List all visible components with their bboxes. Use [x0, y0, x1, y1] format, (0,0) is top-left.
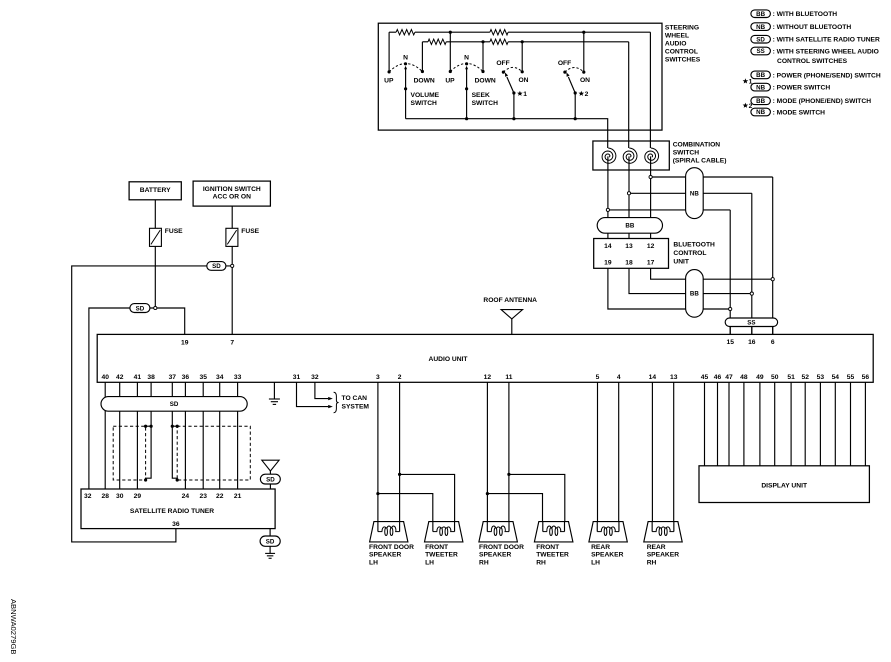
junction tweeter LH minus — [376, 492, 379, 495]
junction row1 switch2 ON — [582, 31, 585, 34]
node circle battery wire — [154, 306, 157, 309]
svg-text:FUSE: FUSE — [165, 228, 183, 235]
connector SD tuner antenna — [260, 474, 280, 484]
wire bottom bus of switch box — [406, 117, 608, 148]
svg-text:42: 42 — [116, 374, 124, 381]
wire audio pin 13 to rear speaker RH — [673, 382, 675, 521]
ignition switch box — [193, 181, 270, 206]
wire audio pin 31 to CAN — [297, 382, 329, 406]
svg-text:SATELLITE RADIO TUNER: SATELLITE RADIO TUNER — [130, 508, 214, 515]
svg-text:AUDIO: AUDIO — [665, 40, 687, 47]
wire bluetooth pin 19 to node on pin15 line — [608, 268, 730, 309]
wire row2 down to combination switch — [628, 42, 630, 148]
svg-text:UNIT: UNIT — [673, 258, 690, 265]
wire SD to ground — [269, 546, 271, 553]
svg-text:AUDIO UNIT: AUDIO UNIT — [428, 356, 468, 363]
svg-text:CONTROL: CONTROL — [665, 48, 698, 55]
svg-text:: MODE (PHONE/END) SWITCH: : MODE (PHONE/END) SWITCH — [773, 98, 872, 105]
svg-text:FRONT: FRONT — [536, 544, 560, 551]
connector SD main harness — [101, 397, 247, 412]
rear speaker RH — [644, 522, 682, 567]
svg-text:SYSTEM: SYSTEM — [342, 403, 370, 410]
audio unit bottom pin labels — [101, 374, 869, 381]
svg-text:FRONT: FRONT — [425, 544, 449, 551]
mode switch *2 — [558, 60, 590, 119]
front door speaker RH — [479, 522, 524, 567]
svg-text:36: 36 — [172, 521, 180, 528]
svg-text:2: 2 — [398, 374, 402, 381]
svg-text:47: 47 — [725, 374, 733, 381]
svg-text:N: N — [403, 54, 408, 61]
svg-text:14: 14 — [649, 374, 657, 381]
node circle right spiral — [649, 175, 652, 178]
wire antenna SD to tuner — [269, 484, 271, 489]
connector BB upper (with bluetooth) — [597, 218, 662, 234]
svg-text:53: 53 — [817, 374, 825, 381]
wire row2 resistor rail — [422, 41, 628, 43]
svg-text:RH: RH — [479, 560, 489, 567]
junction row2 switch1 ON — [521, 40, 524, 43]
legend star 2 — [743, 103, 753, 110]
svg-text:38: 38 — [147, 374, 155, 381]
svg-text:SWITCH: SWITCH — [411, 100, 438, 107]
svg-text:CONTROL SWITCHES: CONTROL SWITCHES — [777, 58, 848, 65]
svg-text:RH: RH — [536, 560, 546, 567]
svg-text:UP: UP — [384, 78, 394, 85]
rear speaker LH — [589, 522, 627, 567]
svg-text:51: 51 — [787, 374, 795, 381]
svg-text:: WITH SATELLITE RADIO TUNER: : WITH SATELLITE RADIO TUNER — [773, 37, 880, 44]
svg-text:UP: UP — [445, 78, 455, 85]
front tweeter RH — [534, 522, 573, 567]
wire audio pin 5 to rear speaker LH — [597, 382, 599, 521]
svg-text:SD: SD — [756, 36, 765, 43]
spiral cable coil middle — [623, 148, 637, 163]
svg-text:22: 22 — [216, 493, 224, 500]
svg-text:SD: SD — [266, 476, 275, 483]
svg-text:16: 16 — [748, 339, 756, 346]
display unit box — [699, 466, 869, 503]
svg-text:35: 35 — [199, 374, 207, 381]
svg-text:LH: LH — [591, 560, 600, 567]
wire audio pin 2 to front door speaker LH — [399, 382, 401, 521]
svg-text:ON: ON — [518, 77, 528, 84]
svg-text:11: 11 — [505, 374, 512, 381]
wire audio pin 15 vertical — [729, 210, 731, 335]
wire ignition fuse to audio pin 7 — [231, 246, 233, 334]
steering wheel audio control switches box — [378, 23, 662, 130]
shield box right pair — [177, 426, 250, 480]
wire SD branch to tuner pin 36 loop — [72, 266, 233, 542]
svg-text:6: 6 — [771, 339, 775, 346]
wire tuner case ground — [269, 529, 271, 536]
svg-text:: WITHOUT BLUETOOTH: : WITHOUT BLUETOOTH — [773, 24, 852, 31]
label BLUETOOTH CONTROL UNIT — [673, 242, 715, 266]
wire audio pin 11 to front door speaker RH — [508, 382, 510, 521]
svg-text:4: 4 — [617, 374, 621, 381]
node circle pin15 line — [729, 307, 732, 310]
svg-text:56: 56 — [862, 374, 870, 381]
wire battery SD branch to tuner pin 32 — [89, 308, 155, 489]
svg-text:33: 33 — [234, 374, 242, 381]
svg-text:55: 55 — [847, 374, 855, 381]
svg-text:BLUETOOTH: BLUETOOTH — [673, 242, 715, 249]
svg-text:48: 48 — [740, 374, 748, 381]
svg-text:SD: SD — [212, 263, 221, 270]
connector SS (with steering wheel audio control switches) — [725, 318, 777, 327]
resistor R1 volume — [396, 30, 415, 35]
svg-text:FUSE: FUSE — [241, 228, 259, 235]
ground audio unit — [269, 382, 280, 404]
wire tap to front tweeter LH plus — [400, 474, 455, 521]
svg-text:NB: NB — [756, 84, 765, 91]
satellite radio tuner box — [81, 489, 275, 529]
resistor R3 mode — [490, 30, 508, 35]
svg-text:SD: SD — [170, 401, 179, 408]
wire audio pin 12 to front door speaker RH — [486, 382, 488, 521]
svg-text:32: 32 — [311, 374, 319, 381]
wire audio pin 4 to rear speaker LH — [618, 382, 620, 521]
svg-text:: MODE SWITCH: : MODE SWITCH — [773, 109, 826, 116]
wire node left spiral to NB branch — [608, 209, 730, 211]
brace TO CAN SYSTEM — [334, 392, 339, 413]
svg-text:SWITCH: SWITCH — [673, 150, 700, 157]
wire tap to front tweeter RH minus — [487, 494, 542, 522]
svg-text:SPEAKER: SPEAKER — [479, 552, 512, 559]
wire switch1 ON to row2 — [521, 42, 523, 72]
svg-text:COMBINATION: COMBINATION — [673, 142, 721, 149]
wire battery to fuse — [154, 200, 156, 229]
svg-text:29: 29 — [134, 493, 142, 500]
tuner pin labels — [84, 493, 242, 528]
svg-text:50: 50 — [771, 374, 779, 381]
svg-text:FRONT DOOR: FRONT DOOR — [479, 544, 524, 551]
wire audio pin 16 vertical — [751, 193, 753, 334]
seek switch — [445, 54, 498, 118]
junction tweeter LH plus — [398, 473, 401, 476]
wire audio pin 6 vertical — [772, 177, 774, 334]
combination switch (spiral cable) box — [593, 141, 669, 170]
wire seek DOWN to row2 — [482, 42, 484, 72]
wire ignition to fuse — [231, 206, 233, 228]
wire pin6 through SS — [772, 318, 774, 334]
svg-text:OFF: OFF — [558, 60, 571, 67]
wire tap to front tweeter LH minus — [378, 494, 433, 522]
svg-text:45: 45 — [701, 374, 709, 381]
svg-text:TO CAN: TO CAN — [342, 395, 368, 402]
spiral cable coil left — [602, 148, 616, 163]
svg-text:18: 18 — [625, 259, 633, 266]
wire audio pin 37 shield drain — [172, 382, 177, 480]
wire node middle spiral to NB branch — [629, 192, 752, 194]
svg-text:36: 36 — [182, 374, 190, 381]
svg-text:SEEK: SEEK — [472, 92, 490, 99]
svg-text:DOWN: DOWN — [414, 78, 435, 85]
svg-text:REAR: REAR — [591, 544, 610, 551]
svg-text:5: 5 — [596, 374, 600, 381]
wire pin15 through SS — [729, 318, 731, 334]
svg-text:12: 12 — [484, 374, 492, 381]
junction tweeter RH plus — [507, 473, 510, 476]
svg-text:SS: SS — [747, 319, 755, 326]
svg-text:46: 46 — [714, 374, 722, 381]
wire left spiral down to bluetooth unit pin 14 — [607, 156, 609, 238]
svg-text:49: 49 — [756, 374, 764, 381]
svg-text:BATTERY: BATTERY — [140, 187, 171, 194]
wires audio pins 40-33 to satellite tuner — [105, 382, 237, 489]
svg-text:SWITCHES: SWITCHES — [665, 56, 701, 63]
node circle ignition wire — [231, 264, 234, 267]
svg-text:SPEAKER: SPEAKER — [591, 552, 624, 559]
svg-text:TWEETER: TWEETER — [425, 552, 458, 559]
svg-text:3: 3 — [376, 374, 380, 381]
svg-text:SWITCH: SWITCH — [472, 100, 499, 107]
svg-text:13: 13 — [670, 374, 678, 381]
svg-text:IGNITION SWITCH: IGNITION SWITCH — [203, 186, 261, 193]
fuse F2 ignition — [226, 228, 238, 246]
svg-text:NB: NB — [756, 109, 765, 116]
svg-text:: POWER SWITCH: : POWER SWITCH — [773, 85, 831, 92]
svg-text:STEERING: STEERING — [665, 24, 699, 31]
connector SD tuner ground — [260, 536, 280, 546]
roof antenna — [483, 297, 537, 335]
node circle pin6 line — [771, 278, 774, 281]
wire tap to front tweeter RH plus — [509, 474, 565, 521]
svg-text:LH: LH — [369, 560, 378, 567]
wire audio pin 32 to CAN — [315, 382, 328, 398]
svg-text:SPEAKER: SPEAKER — [369, 552, 402, 559]
svg-text:ABNWA0279GB: ABNWA0279GB — [9, 599, 18, 654]
ground tuner — [265, 552, 275, 554]
svg-text:: POWER (PHONE/SEND) SWITCH: : POWER (PHONE/SEND) SWITCH — [773, 72, 881, 79]
junction row2 seek DOWN — [481, 40, 484, 43]
wire battery SD node to audio pin 19 — [155, 308, 184, 334]
svg-text:37: 37 — [169, 374, 177, 381]
svg-text:14: 14 — [604, 243, 612, 250]
legend star 1 — [743, 78, 753, 85]
wire audio pin 14 to rear speaker RH — [651, 382, 653, 521]
wire switch2 ON to row1 — [583, 32, 585, 71]
audio unit box — [97, 334, 873, 382]
svg-text:54: 54 — [832, 374, 840, 381]
label STEERING WHEEL AUDIO CONTROL SWITCHES — [665, 24, 701, 63]
svg-text:NB: NB — [690, 190, 699, 197]
wire volume DOWN to row2 — [421, 42, 423, 72]
shield junctions — [144, 425, 179, 482]
shield box left pair — [113, 426, 145, 480]
wire middle spiral down to bluetooth unit pin 13 — [628, 156, 630, 238]
svg-text:BB: BB — [625, 223, 634, 230]
svg-text:41: 41 — [134, 374, 142, 381]
wire pin16 through SS — [751, 318, 753, 334]
power switch *1 — [496, 60, 528, 119]
svg-text:2: 2 — [749, 103, 753, 110]
svg-text:RH: RH — [647, 560, 657, 567]
wire node right spiral to NB branch — [651, 176, 773, 178]
svg-text:31: 31 — [293, 374, 301, 381]
bluetooth control unit box — [594, 239, 669, 269]
svg-text:SD: SD — [266, 538, 275, 545]
svg-text:28: 28 — [101, 493, 109, 500]
svg-text:NB: NB — [756, 24, 765, 31]
svg-text:21: 21 — [234, 493, 242, 500]
svg-text:BB: BB — [756, 98, 765, 105]
battery box — [129, 182, 181, 200]
connector SD on battery branch — [130, 304, 150, 313]
svg-text:ROOF ANTENNA: ROOF ANTENNA — [483, 297, 537, 304]
wire volume UP to row1 — [388, 32, 390, 72]
svg-text:32: 32 — [84, 493, 92, 500]
svg-text:2: 2 — [585, 91, 589, 98]
svg-text:24: 24 — [182, 493, 190, 500]
node circle middle spiral — [627, 192, 630, 195]
wire bluetooth pin 18 to node on pin16 line — [629, 268, 752, 293]
svg-text:13: 13 — [625, 243, 633, 250]
svg-text:BB: BB — [756, 72, 765, 79]
svg-text:TWEETER: TWEETER — [536, 552, 569, 559]
node circle left spiral — [606, 208, 609, 211]
svg-text:19: 19 — [181, 340, 189, 347]
svg-text:40: 40 — [101, 374, 109, 381]
legend connector codes — [751, 10, 881, 117]
svg-text:: WITH BLUETOOTH: : WITH BLUETOOTH — [773, 11, 838, 18]
svg-text:17: 17 — [647, 259, 655, 266]
wires audio pins 45-56 to display unit — [705, 382, 866, 466]
svg-text:CONTROL: CONTROL — [673, 250, 706, 257]
svg-text:BB: BB — [690, 291, 699, 298]
svg-text:VOLUME: VOLUME — [411, 92, 440, 99]
svg-text:15: 15 — [726, 339, 734, 346]
svg-text:1: 1 — [523, 91, 527, 98]
connector BB lower (with bluetooth) — [686, 270, 704, 318]
svg-text:SD: SD — [136, 305, 145, 312]
wire row1 down to combination switch — [649, 32, 651, 148]
svg-text:LH: LH — [425, 560, 434, 567]
svg-text:FRONT DOOR: FRONT DOOR — [369, 544, 414, 551]
svg-text:1: 1 — [749, 79, 753, 86]
junction tweeter RH minus — [486, 492, 489, 495]
resistor R4 power — [490, 39, 508, 44]
front door speaker LH — [369, 522, 414, 567]
svg-text:N: N — [464, 54, 469, 61]
svg-text:SPEAKER: SPEAKER — [647, 552, 680, 559]
wire row1 top resistor rail — [389, 31, 650, 33]
svg-text:REAR: REAR — [647, 544, 666, 551]
wire battery fuse to SD node — [154, 246, 156, 308]
label COMBINATION SWITCH (SPIRAL CABLE) — [673, 142, 727, 165]
label TO CAN SYSTEM — [342, 395, 370, 410]
wire audio pin 3 to front door speaker LH — [377, 382, 379, 521]
volume switch — [384, 54, 439, 118]
svg-text:ACC OR ON: ACC OR ON — [213, 194, 251, 201]
svg-text:: WITH STEERING WHEEL AUDIO: : WITH STEERING WHEEL AUDIO — [773, 48, 879, 55]
svg-text:19: 19 — [604, 259, 612, 266]
svg-text:ON: ON — [580, 77, 590, 84]
spiral cable coil right — [645, 148, 659, 163]
tuner antenna — [262, 460, 279, 474]
wire audio pin 38 shield drain — [146, 382, 152, 480]
wire right spiral down to bluetooth unit pin 12 — [650, 156, 652, 238]
resistor R2 seek — [428, 39, 446, 44]
wire seek UP to row1 — [449, 32, 451, 71]
svg-text:52: 52 — [801, 374, 809, 381]
svg-text:12: 12 — [647, 243, 655, 250]
front tweeter LH — [425, 522, 463, 567]
svg-text:23: 23 — [199, 493, 207, 500]
svg-text:30: 30 — [116, 493, 124, 500]
node circle pin16 line — [750, 292, 753, 295]
fuse F1 battery — [150, 228, 162, 246]
svg-text:OFF: OFF — [496, 60, 509, 67]
svg-text:7: 7 — [230, 340, 234, 347]
junction row1 seek UP — [449, 31, 452, 34]
svg-text:(SPIRAL CABLE): (SPIRAL CABLE) — [673, 158, 727, 165]
svg-text:WHEEL: WHEEL — [665, 32, 689, 39]
wire bluetooth pin 17 to node on pin6 line — [651, 268, 773, 279]
svg-text:BB: BB — [756, 11, 765, 18]
svg-text:DOWN: DOWN — [475, 78, 496, 85]
svg-text:34: 34 — [216, 374, 224, 381]
svg-text:DISPLAY UNIT: DISPLAY UNIT — [761, 483, 808, 490]
svg-text:SS: SS — [756, 48, 764, 55]
connector SD on ignition branch — [207, 262, 226, 271]
connector NB (without bluetooth) — [686, 168, 704, 219]
